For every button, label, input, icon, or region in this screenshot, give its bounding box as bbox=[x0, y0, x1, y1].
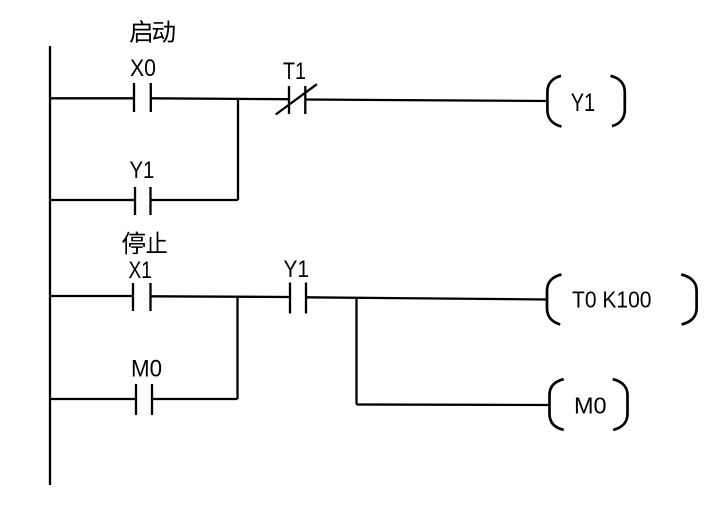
wire parallel branch: rail to Y1 contact bbox=[50, 199, 135, 201]
svg-text:Y1: Y1 bbox=[571, 89, 596, 117]
wire rung1: rail to X0 contact bbox=[50, 97, 134, 99]
wire junction vertical rung1 bbox=[237, 98, 239, 200]
contact T1 (normally closed) bbox=[276, 84, 317, 114]
svg-text:T1: T1 bbox=[283, 58, 306, 85]
label 启动 (start) bbox=[130, 20, 175, 43]
svg-text:Y1: Y1 bbox=[130, 157, 155, 184]
contact X1 bbox=[133, 283, 151, 311]
svg-text:X0: X0 bbox=[130, 55, 156, 82]
svg-text:M0: M0 bbox=[574, 393, 607, 419]
coil Y1 bbox=[547, 76, 624, 127]
contact Y1 (seal-in branch) bbox=[135, 187, 151, 215]
wire rung1: T1 to coil Y1 bbox=[305, 100, 548, 102]
svg-text:X1: X1 bbox=[129, 257, 152, 284]
svg-text:M0: M0 bbox=[131, 356, 162, 383]
contact M0 bbox=[136, 384, 152, 415]
left power rail bbox=[49, 46, 51, 485]
wire M0 contact to junction bbox=[152, 398, 238, 400]
contact X0 bbox=[134, 83, 151, 112]
wire branch to coil M0 bbox=[357, 403, 550, 406]
label 停止 (stop) bbox=[122, 231, 166, 254]
wire rung1: X0 to T1 contact bbox=[151, 97, 289, 100]
wire junction vertical rung2 (M0 contact branch) bbox=[236, 297, 238, 399]
wire junction vertical to coil M0 bbox=[355, 298, 357, 405]
coil T0 K100 bbox=[547, 275, 697, 325]
wire rung2: Y1 contact to coil T0 bbox=[306, 297, 548, 299]
svg-text:T0 K100: T0 K100 bbox=[572, 287, 652, 313]
wire branch: Y1 contact to junction bbox=[151, 199, 239, 201]
wire M0 branch: rail to M0 contact bbox=[50, 398, 136, 400]
coil M0 bbox=[550, 379, 628, 430]
wire rung2: X1 to Y1 contact bbox=[151, 295, 291, 298]
svg-text:Y1: Y1 bbox=[284, 256, 310, 283]
contact Y1 (rung2) bbox=[290, 283, 306, 314]
wire rung2: rail to X1 contact bbox=[50, 295, 133, 297]
